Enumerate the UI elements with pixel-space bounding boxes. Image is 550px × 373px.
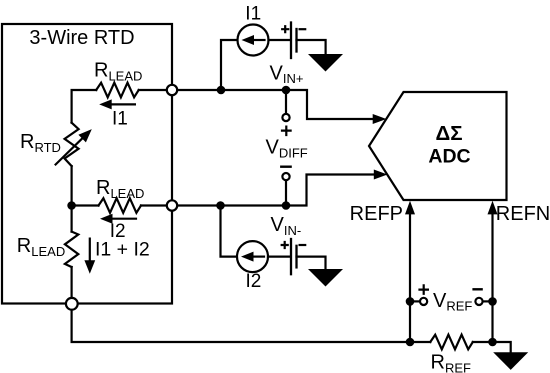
- junction dot: V_REF - rail: [488, 297, 497, 306]
- ground (top): [308, 54, 343, 72]
- resistor R_LEAD (top, horizontal): [96, 83, 139, 98]
- terminal circle V_DIFF -: [282, 173, 289, 180]
- svg-text:3-Wire RTD: 3-Wire RTD: [29, 27, 134, 49]
- resistor R_RTD (variable, vertical): [65, 123, 79, 166]
- arrow through R_RTD (variable resistor arrow): [56, 136, 85, 164]
- current source I1 circle: [238, 25, 269, 56]
- wire: R_REF right to REFN line and ground: [473, 342, 511, 352]
- junction dot: V_IN+: [282, 86, 291, 95]
- minus sign V_REF: [474, 288, 482, 290]
- wire: bottom R_LEAD to bottom terminal node: [70, 267, 72, 303]
- wire: lower branch (RTD terminal 2 to ADC corner): [172, 175, 375, 206]
- current source I2 circle: [237, 241, 268, 272]
- svg-text:REFN: REFN: [496, 203, 550, 225]
- current arrow I1+I2 (down): [89, 239, 91, 262]
- svg-text:ΔΣ: ΔΣ: [435, 122, 462, 145]
- ADC block: [369, 92, 507, 200]
- wire: left inner vertical (top R_LEAD left end down to R_RTD): [72, 90, 97, 123]
- resistor R_LEAD (bottom, vertical): [65, 232, 78, 267]
- current arrow I1 (under top R_LEAD): [110, 103, 135, 105]
- junction dot: I1 branch: [217, 86, 226, 95]
- battery V2 long plate: [290, 239, 292, 274]
- plus sign V_DIFF: [282, 127, 291, 135]
- wire: V_IN+ stub to V_DIFF plus terminal: [285, 90, 287, 114]
- arrowhead: REFP into ADC: [405, 201, 415, 215]
- junction dot: V_IN-: [282, 201, 291, 210]
- node circle: RTD terminal 2: [167, 200, 177, 210]
- terminal circle V_DIFF +: [282, 114, 289, 121]
- wire: V_REF minus stub: [483, 300, 493, 302]
- wire: battery V1 to ground: [297, 40, 326, 54]
- current source I2 arrow: [252, 256, 265, 258]
- junction dot: R_RTD / R_LEAD2: [67, 201, 76, 210]
- wire: V_REF plus stub: [410, 300, 420, 302]
- ground (bottom right): [493, 352, 528, 370]
- svg-text:REFP: REFP: [350, 203, 403, 225]
- wire: R_LEAD top right end to RTD terminal node: [139, 89, 172, 91]
- wire: I1 branch up from junction: [221, 40, 238, 90]
- wire: battery V2 to ground: [297, 257, 326, 269]
- battery V1 short plate: [295, 29, 297, 52]
- svg-text:I1: I1: [245, 4, 261, 25]
- node circle: RTD terminal 1: [167, 85, 177, 95]
- current source I1 arrow: [252, 39, 265, 41]
- wire: REFN vertical: [491, 212, 493, 342]
- junction dot: REFP / R_REF: [406, 338, 415, 347]
- junction dot: I2 branch: [216, 201, 225, 210]
- plus sign at battery V1: [282, 26, 288, 32]
- battery V2 short plate: [295, 246, 297, 268]
- battery V1 long plate: [290, 23, 292, 59]
- node circle: RTD terminal 3 (bottom): [66, 298, 78, 310]
- minus sign at battery V2: [300, 244, 306, 246]
- plus sign V_REF: [420, 285, 428, 293]
- plus sign at battery V2: [282, 242, 288, 248]
- arrowhead: REFN into ADC: [488, 201, 498, 215]
- wire: REFP vertical: [409, 212, 411, 342]
- arrowhead: lower ADC input: [374, 170, 388, 180]
- resistor R_LEAD (middle, horizontal): [99, 198, 142, 213]
- wire: I2 branch down from junction: [221, 206, 238, 257]
- wire: top branch (RTD terminal 1 to ADC corner): [172, 90, 374, 119]
- resistor R_REF (horizontal): [430, 335, 473, 350]
- minus sign at battery V1: [300, 28, 306, 30]
- terminal circle V_REF +: [420, 298, 427, 305]
- wire: bottom terminal node down and right to R_REF: [72, 304, 431, 342]
- wire: middle branch from junction to R_LEAD2: [72, 204, 99, 206]
- 3-Wire RTD enclosure box: [2, 24, 172, 304]
- svg-text:ADC: ADC: [428, 145, 470, 167]
- svg-text:I1: I1: [112, 108, 128, 129]
- minus sign V_DIFF: [281, 165, 290, 167]
- wire: I1 to battery: [269, 39, 290, 41]
- current arrow I2 (under middle R_LEAD): [111, 218, 136, 220]
- svg-text:I1 + I2: I1 + I2: [95, 238, 150, 260]
- svg-text:I2: I2: [246, 271, 262, 292]
- wire: I2 to battery: [268, 256, 289, 258]
- junction dot: V_REF + rail: [406, 297, 415, 306]
- ground (middle): [308, 269, 343, 287]
- wire: R_LEAD middle right end to RTD terminal node 2: [141, 204, 172, 206]
- wire: R_RTD bottom to junction: [70, 166, 72, 232]
- wire: V_DIFF minus terminal down to V_IN-: [285, 181, 287, 206]
- arrowhead: upper ADC input: [373, 114, 387, 124]
- terminal circle V_REF -: [475, 298, 482, 305]
- junction dot: REFN / R_REF: [488, 338, 497, 347]
